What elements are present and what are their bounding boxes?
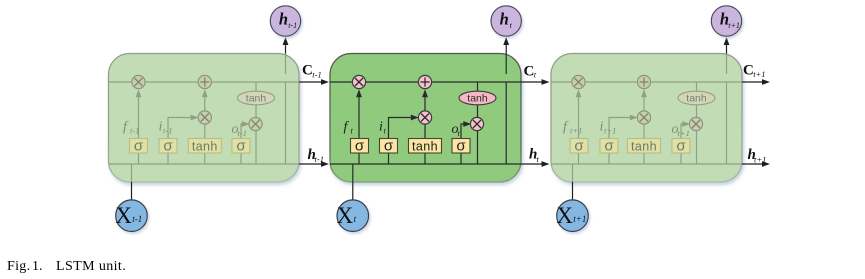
wire: x input rise to bus <box>131 164 133 182</box>
wire: cell top to h_t <box>505 38 507 54</box>
wire: forget gate column <box>358 97 360 164</box>
left LSTM cell forget gate box sigma <box>130 137 148 154</box>
left LSTM cell output multiply node <box>249 117 262 130</box>
right LSTM cell input multiply node <box>637 111 650 124</box>
middle LSTM cell output multiply node <box>470 117 483 130</box>
svg-text:t+1: t+1 <box>754 155 766 165</box>
svg-text:i: i <box>600 120 604 135</box>
svg-text:t+1: t+1 <box>728 21 740 30</box>
svg-text:σ: σ <box>384 137 394 154</box>
middle LSTM cell body <box>330 54 521 183</box>
left LSTM cell body <box>109 54 300 183</box>
middle LSTM cell output gate box sigma <box>452 137 470 154</box>
left LSTM cell tanh ellipse <box>238 91 275 105</box>
output node h_t-1 <box>270 6 300 36</box>
svg-text:tanh: tanh <box>192 139 218 153</box>
svg-text:t+1: t+1 <box>753 69 765 79</box>
svg-text:t-1: t-1 <box>315 154 324 164</box>
wire: h/x bus line (y=164) <box>330 163 521 165</box>
middle LSTM cell tanh ellipse <box>459 91 496 105</box>
wire: C branch down through tanh to output multiply, down to bus <box>696 82 698 164</box>
middle LSTM cell input multiply node <box>418 111 431 124</box>
svg-text:tanh: tanh <box>246 93 267 105</box>
middle LSTM cell input gate box sigma <box>380 137 398 154</box>
wire: cell top to h_t+1 <box>726 38 728 54</box>
wire: candidate tanh column <box>204 124 206 164</box>
right LSTM cell forget multiply node <box>572 75 585 88</box>
svg-text:tanh: tanh <box>686 93 707 105</box>
svg-text:h: h <box>500 10 509 29</box>
svg-text:X: X <box>115 203 132 228</box>
right LSTM cell tanh ellipse <box>678 91 715 105</box>
wire: cell state line C (y=82) <box>330 81 521 83</box>
wire: X_t+1 to cell bottom <box>572 182 574 200</box>
wire: h branch up (crosses C line with hop gap) <box>726 83 728 164</box>
svg-text:tanh: tanh <box>412 139 438 153</box>
wire: cell state line C (y=82) <box>551 81 742 83</box>
svg-text:X: X <box>556 203 573 228</box>
svg-text:t+1: t+1 <box>678 128 690 138</box>
svg-text:σ: σ <box>163 137 173 154</box>
svg-text:Fig.: Fig. <box>7 259 30 274</box>
svg-text:t-1: t-1 <box>163 126 172 136</box>
wire: x input rise to bus <box>352 164 354 182</box>
svg-text:σ: σ <box>456 137 466 154</box>
wire: input gate column + elbow into multiply <box>389 118 411 165</box>
left LSTM cell input multiply node <box>198 111 211 124</box>
svg-text:t+1: t+1 <box>570 126 582 136</box>
wire: h/x bus line (y=164) <box>109 163 300 165</box>
middle LSTM cell forget multiply node <box>352 75 365 88</box>
svg-text:t-1: t-1 <box>312 70 321 80</box>
wire: forget gate column <box>578 97 580 164</box>
wire: output gate column + elbow into multiply <box>241 124 243 164</box>
wire: h_t+1 output <box>742 163 767 165</box>
wire: h/x bus line (y=164) <box>551 163 742 165</box>
left LSTM cell forget multiply node <box>132 75 145 88</box>
svg-text:t-1: t-1 <box>288 21 297 30</box>
wire: h branch up (crosses C line with hop gap) <box>285 83 287 164</box>
wire: h from left cell to middle cell <box>299 163 326 165</box>
wire: multiply to plus <box>424 97 426 111</box>
wire: forget gate column <box>138 97 140 164</box>
wire: h branch up (crosses C line with hop gap) <box>505 83 507 164</box>
wire: output gate column + elbow into multiply <box>681 124 683 164</box>
svg-text:i: i <box>159 120 163 135</box>
middle LSTM cell add node <box>418 75 431 88</box>
right LSTM cell add node <box>637 75 650 88</box>
svg-text:σ: σ <box>355 137 365 154</box>
right LSTM cell input gate box sigma <box>600 137 618 154</box>
svg-text:tanh: tanh <box>631 139 657 153</box>
svg-text:σ: σ <box>604 137 614 154</box>
right LSTM cell candidate tanh box <box>628 139 661 154</box>
wire: output gate column + elbow into multiply <box>461 124 464 164</box>
wire: candidate tanh column <box>643 124 645 164</box>
left LSTM cell input gate box sigma <box>159 137 177 154</box>
output node h_t+1 <box>711 6 741 36</box>
wire: input gate column + elbow into multiply <box>168 118 191 165</box>
svg-text:1.: 1. <box>32 259 43 274</box>
right LSTM cell body <box>551 54 742 183</box>
input node X_t+1 <box>556 200 588 232</box>
svg-text:i: i <box>379 120 383 135</box>
wire: multiply to plus <box>204 97 206 111</box>
right LSTM cell forget gate box sigma <box>570 137 588 154</box>
svg-text:σ: σ <box>236 137 246 154</box>
left LSTM cell candidate tanh box <box>188 139 221 154</box>
wire: C from middle cell to right cell <box>521 81 547 83</box>
svg-text:t+1: t+1 <box>573 214 586 224</box>
output node h_t <box>491 6 521 36</box>
svg-text:σ: σ <box>574 137 584 154</box>
wire: X_t to cell bottom <box>352 182 354 200</box>
wire: cell top to h_t-1 <box>285 38 287 54</box>
left LSTM cell add node <box>198 75 211 88</box>
svg-text:t-1: t-1 <box>130 126 139 136</box>
left LSTM cell output gate box sigma <box>232 137 250 154</box>
wire: multiply to plus <box>643 97 645 111</box>
svg-text:tanh: tanh <box>467 93 488 105</box>
svg-text:LSTM unit.: LSTM unit. <box>56 259 126 274</box>
input node X_t <box>337 200 369 232</box>
middle LSTM cell candidate tanh box <box>409 139 442 154</box>
wire: C branch down through tanh to output multiply, down to bus <box>477 82 479 164</box>
svg-text:t-1: t-1 <box>132 214 142 224</box>
right LSTM cell output gate box sigma <box>672 137 690 154</box>
middle LSTM cell forget gate box sigma <box>351 137 369 154</box>
svg-text:C: C <box>302 63 313 79</box>
right LSTM cell output multiply node <box>689 117 702 130</box>
wire: C_t+1 output <box>742 81 767 83</box>
wire: candidate tanh column <box>424 124 426 164</box>
svg-text:t-1: t-1 <box>238 128 247 138</box>
wire: C branch down through tanh to output multiply, down to bus <box>255 82 257 164</box>
svg-text:X: X <box>337 203 354 228</box>
wire: input gate column + elbow into multiply <box>609 118 630 165</box>
svg-text:σ: σ <box>134 137 144 154</box>
svg-text:h: h <box>279 10 288 29</box>
svg-text:σ: σ <box>676 137 686 154</box>
input node X_t-1 <box>115 200 147 232</box>
wire: x input rise to bus <box>572 164 574 182</box>
wire: h from middle cell to right cell <box>521 163 547 165</box>
wire: cell state line C (y=82) <box>109 81 300 83</box>
wire: X_t-1 to cell bottom <box>131 182 133 200</box>
wire: C from left cell to middle cell <box>299 81 326 83</box>
svg-text:t+1: t+1 <box>604 126 616 136</box>
